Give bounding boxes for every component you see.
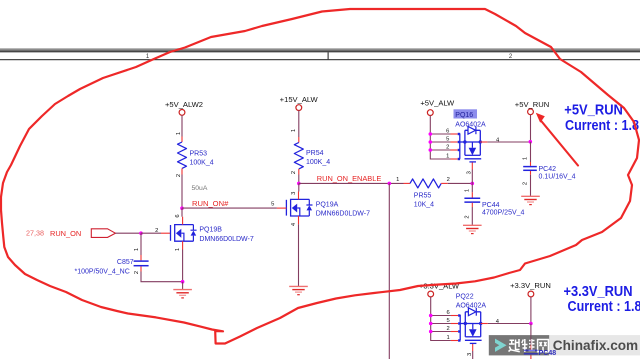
svg-text:3: 3 [467, 353, 473, 356]
svg-text:2: 2 [464, 215, 470, 218]
resistor PR55 [410, 179, 441, 209]
svg-text:1: 1 [446, 335, 449, 341]
power symbol +5V_ALW [420, 99, 455, 116]
capacitor PC48 plates (over watermark) [524, 335, 538, 354]
wire +3.3V_RUN rail [530, 297, 532, 324]
node C857/gate junction [139, 231, 143, 235]
svg-text:1: 1 [134, 248, 140, 251]
wire RUN_ON_ENABLE [299, 182, 404, 184]
wire PQ16 pin3 to node [471, 170, 473, 184]
svg-text:*100P/50V_4_NC: *100P/50V_4_NC [75, 268, 130, 275]
pin 3 PQ16 [466, 163, 472, 175]
svg-text:RUN_ON#: RUN_ON# [192, 199, 229, 208]
svg-text:2: 2 [155, 228, 158, 234]
svg-text:1: 1 [291, 129, 297, 132]
pin 6 PQ19B [175, 214, 183, 224]
node ground junction [181, 280, 185, 284]
capacitor PC44 [464, 183, 524, 225]
svg-text:1: 1 [523, 157, 529, 160]
wire PQ16 pin4 to +5V_RUN rail [487, 141, 530, 143]
wire PQ22 pin3 down [472, 351, 474, 359]
svg-text:PC44: PC44 [482, 202, 500, 209]
wire rail stub pin2 [430, 149, 450, 151]
ground (PQ19A) [289, 286, 308, 294]
svg-text:2: 2 [446, 326, 449, 332]
svg-text:2: 2 [523, 182, 529, 185]
wire RUN_ON_ENABLE drop [388, 183, 390, 359]
wire rail stub pin6 (PQ22) [431, 315, 451, 317]
watermark CJK char xun [509, 339, 520, 352]
svg-text:+5V_RUN: +5V_RUN [515, 100, 549, 109]
sheet border line lower [0, 59, 640, 60]
svg-text:1: 1 [446, 154, 449, 160]
svg-text:1: 1 [176, 132, 182, 135]
capacitor PC42 [523, 142, 576, 196]
pin 5 PQ19A [271, 201, 286, 208]
resistor PR53 [178, 142, 214, 168]
svg-text:4700P/25V_4: 4700P/25V_4 [482, 209, 525, 216]
node +5V_RUN junction [529, 140, 533, 144]
wire PR54 to RUN_ON_ENABLE node [298, 175, 300, 184]
resistor PR54 [294, 143, 330, 169]
pin 2 PR53 [176, 168, 182, 177]
pin 6 PQ22 [446, 310, 460, 317]
svg-text:RUN_ON_ENABLE: RUN_ON_ENABLE [317, 174, 382, 183]
node rail pin6 [429, 132, 433, 136]
svg-text:50uA: 50uA [192, 185, 208, 192]
wire rail stub pin5 [430, 141, 450, 143]
svg-text:PR55: PR55 [414, 193, 432, 200]
node rail pin5 (PQ22) [429, 322, 433, 326]
svg-text:1: 1 [464, 189, 470, 192]
pin 1 PQ16 [446, 154, 460, 161]
pin 6 PQ16 [446, 129, 460, 136]
svg-text:100K_4: 100K_4 [190, 160, 214, 167]
node rail pin2 (PQ22) [429, 330, 433, 334]
svg-text:0.1U/16V_4: 0.1U/16V_4 [539, 174, 576, 181]
pin 1 PQ22 [446, 335, 460, 342]
wire +5V_RUN rail [530, 115, 532, 142]
node RUN_ON_ENABLE mid junction [388, 182, 392, 186]
power symbol +5V_RUN [515, 100, 549, 115]
svg-text:Current : 1.8: Current : 1.8 [568, 299, 640, 315]
pin 4 PQ19A [291, 216, 299, 226]
transistor PQ19A [286, 199, 370, 217]
wire rail stub pin5 (PQ22) [431, 323, 451, 325]
svg-text:2: 2 [447, 177, 450, 183]
power symbol +3.3V_RUN [510, 281, 551, 297]
wire flag to C857 node [115, 232, 141, 234]
svg-text:+15V_ALW: +15V_ALW [280, 95, 319, 104]
svg-text:+5V_ALW2: +5V_ALW2 [165, 100, 203, 109]
svg-text:5: 5 [271, 201, 274, 207]
svg-text:DMN66D0LDW-7: DMN66D0LDW-7 [316, 210, 370, 217]
svg-text:Current : 1.8: Current : 1.8 [565, 118, 639, 134]
transistor PQ22 [456, 294, 487, 344]
pin 2 PQ19B [155, 228, 170, 234]
pin 5 PQ22 [446, 318, 460, 325]
wire rail stub pin2 (PQ22) [431, 331, 451, 333]
ground (PQ19B/C857) [173, 282, 192, 298]
wire +3.3V_ALW rail [431, 297, 451, 341]
pin 2 PR55 [441, 177, 450, 183]
svg-text:PQ19B: PQ19B [199, 226, 222, 233]
wire rail stub pin6 [430, 133, 450, 135]
pin 1 PR53 [176, 132, 182, 142]
pin 2 PQ22 [446, 326, 460, 333]
svg-text:PC42: PC42 [539, 166, 557, 173]
svg-text:PR54: PR54 [306, 150, 324, 157]
node rail pin6 (PQ22) [429, 314, 433, 318]
svg-text:+5V_ALW: +5V_ALW [420, 99, 455, 108]
watermark chevron logo [495, 339, 507, 352]
node PQ16 pin3 junction [471, 182, 475, 186]
svg-text:Chinafix.com: Chinafix.com [553, 338, 638, 353]
svg-text:PQ19A: PQ19A [316, 201, 339, 208]
wire RUN_ON# node to PQ19B drain [181, 208, 183, 217]
svg-text:10K_4: 10K_4 [414, 202, 434, 209]
svg-text:+3.3V_RUN: +3.3V_RUN [510, 281, 551, 290]
node RUN_ON_ENABLE at PR54 [297, 182, 301, 186]
wire PQ19B source to ground node [182, 250, 184, 282]
pin 2 PR54 [291, 169, 299, 175]
wire PR55 to PQ16 node [448, 182, 473, 184]
watermark dark box [489, 335, 550, 355]
svg-text:1: 1 [396, 177, 399, 183]
sheet border line upper [0, 51, 640, 52]
svg-text:3: 3 [291, 192, 297, 195]
capacitor PC48 [524, 324, 538, 359]
svg-text:6: 6 [446, 129, 449, 135]
node RUN_ON# junction [180, 206, 184, 210]
pin 1 PQ19B [175, 241, 183, 251]
svg-text:2: 2 [134, 271, 140, 274]
node +3.3V_RUN junction [529, 322, 533, 326]
svg-text:6: 6 [446, 310, 449, 316]
svg-text:1: 1 [175, 248, 181, 251]
pin 4 PQ22 [481, 319, 500, 325]
svg-text:2: 2 [291, 171, 297, 174]
svg-text:3: 3 [466, 171, 472, 174]
wire +15V_ALW to PR54 [298, 111, 300, 138]
svg-text:+3.3V_RUN: +3.3V_RUN [564, 284, 633, 300]
ground (PC42) [521, 196, 540, 204]
ground (PC44) [463, 225, 482, 233]
wire +5V_ALW rail [430, 116, 450, 160]
svg-text:5: 5 [446, 137, 449, 143]
transistor PQ16 [454, 109, 486, 162]
annotation red arrow to +5V_RUN [536, 113, 578, 166]
power symbol +5V_ALW2 [165, 100, 203, 115]
svg-text:5: 5 [446, 318, 449, 324]
wire RUN_ON_ENABLE to PQ19A drain [298, 183, 300, 191]
watermark CJK char wei [522, 339, 535, 352]
node rail pin2 [429, 148, 433, 152]
pin 3 PQ22 [467, 344, 473, 356]
svg-text:+5V_RUN: +5V_RUN [564, 102, 623, 118]
sheet border gray band [0, 48, 640, 51]
node rail pin5 [429, 140, 433, 144]
svg-text:AO6402A: AO6402A [456, 303, 487, 310]
wire RUN_ON# to PQ19A gate [182, 207, 277, 209]
sheet border column tick [328, 52, 329, 59]
svg-text:DMN66D0LDW-7: DMN66D0LDW-7 [199, 236, 253, 243]
svg-text:C857: C857 [117, 259, 134, 266]
pin 2 PQ16 [446, 145, 460, 152]
wire PR53 to RUN_ON# node [181, 175, 183, 209]
pin 3 PQ19A [291, 192, 299, 200]
capacitor C857 [75, 233, 183, 282]
power symbol +15V_ALW [280, 95, 319, 111]
svg-text:PC48: PC48 [539, 350, 557, 357]
wire PQ22 pin4 to +3.3V_RUN rail [488, 323, 531, 325]
svg-text:27,38: 27,38 [26, 228, 44, 237]
svg-text:2: 2 [176, 174, 182, 177]
wire +5V_ALW2 to PR53 [181, 115, 183, 136]
svg-text:6: 6 [175, 214, 181, 217]
svg-text:100K_4: 100K_4 [306, 159, 330, 166]
pin 1 PR54 [291, 129, 299, 143]
svg-text:2: 2 [446, 145, 449, 151]
pin 1 PR55 [396, 177, 410, 183]
svg-text:PR53: PR53 [190, 151, 208, 158]
svg-text:PQ22: PQ22 [456, 294, 474, 301]
wire junction to PQ19B gate [141, 232, 161, 234]
watermark light box [549, 335, 640, 355]
transistor PQ19B [171, 225, 254, 244]
watermark CJK char wang [538, 340, 549, 352]
power symbol +3.3V_ALW [419, 281, 460, 297]
pin 5 PQ16 [446, 137, 460, 144]
wire PQ19A source to ground [298, 224, 300, 286]
off-page connector RUN_ON flag [91, 229, 115, 238]
pin 4 PQ16 [480, 137, 500, 143]
svg-text:RUN_ON: RUN_ON [50, 229, 81, 238]
svg-text:PQ16: PQ16 [455, 112, 473, 119]
